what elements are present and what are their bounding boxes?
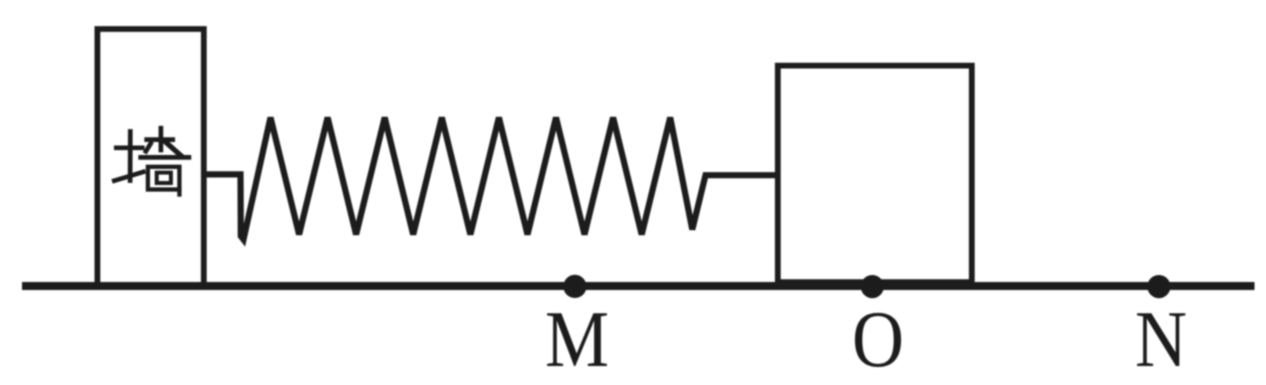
node N dot — [1147, 275, 1170, 298]
ground — [22, 282, 1255, 290]
svg-text:O: O — [852, 296, 904, 384]
block bottom edge — [778, 279, 972, 284]
spring (wall to block) — [204, 118, 778, 240]
label 墙 (wall character, drawn strokes) — [114, 128, 189, 194]
svg-text:M: M — [545, 296, 609, 384]
svg-text:N: N — [1135, 296, 1187, 384]
block — [778, 66, 972, 290]
wall — [97, 29, 203, 289]
node M dot — [563, 275, 586, 298]
node O dot — [861, 275, 884, 298]
